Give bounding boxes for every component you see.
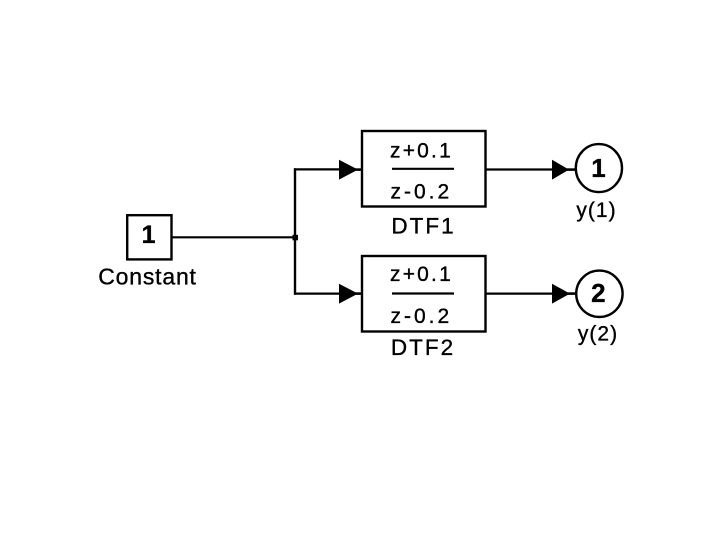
svg-text:DTF2: DTF2	[391, 335, 455, 360]
wire DTF1 to out port 1	[485, 168, 553, 170]
arrowhead into DTF2	[339, 284, 358, 304]
svg-text:2: 2	[591, 278, 605, 308]
stub wire into DTF2	[355, 292, 362, 295]
output port 1	[576, 144, 622, 192]
svg-text:y(2): y(2)	[578, 323, 618, 346]
stub wire into out port 2	[568, 292, 577, 295]
transfer function block DTF1	[362, 131, 486, 207]
svg-text:DTF1: DTF1	[391, 213, 455, 238]
svg-text:z-0.2: z-0.2	[390, 180, 452, 203]
svg-text:1: 1	[142, 221, 156, 249]
wire from Constant to junction	[173, 236, 297, 238]
output port 2	[576, 271, 622, 317]
svg-text:y(1): y(1)	[576, 199, 616, 222]
wire branch to DTF1	[294, 168, 340, 170]
constant block Constant	[127, 215, 171, 259]
arrowhead into out port 1	[552, 160, 569, 180]
svg-text:z-0.2: z-0.2	[390, 305, 452, 328]
arrowhead into out port 2	[552, 284, 570, 304]
svg-text:z+0.1: z+0.1	[390, 263, 453, 286]
stub wire into out port 1	[567, 168, 576, 171]
wire trunk vertical	[294, 168, 296, 294]
stub wire into DTF1	[355, 168, 362, 171]
transfer function block DTF2	[362, 256, 486, 332]
svg-text:1: 1	[591, 153, 605, 183]
svg-text:z+0.1: z+0.1	[390, 139, 453, 162]
arrowhead into DTF1	[339, 160, 358, 180]
junction node	[293, 235, 299, 241]
wire branch to DTF2	[294, 293, 340, 295]
svg-text:Constant: Constant	[98, 264, 196, 290]
wire DTF2 to out port 2	[485, 293, 553, 295]
